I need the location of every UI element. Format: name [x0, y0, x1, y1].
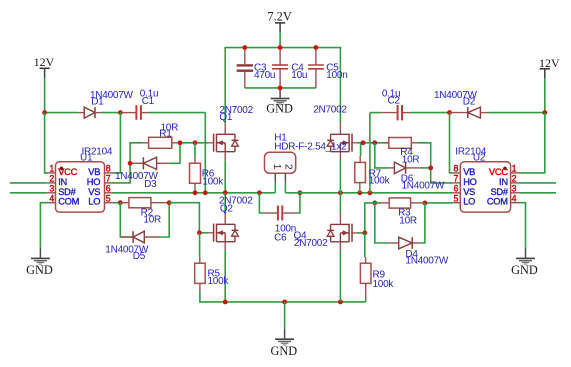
R2 label [141, 208, 161, 226]
junction VS / C6 left [257, 190, 262, 195]
wire bottom ground rail [200, 292, 366, 302]
svg-text:D2: D2 [463, 97, 476, 108]
C4 value label [291, 62, 307, 81]
U2 pin stubs right [511, 173, 520, 203]
junction R2 / D5 / gate wire [167, 200, 172, 205]
wire U1 LO pin5 [113, 202, 121, 204]
D4 label [405, 249, 449, 267]
transistor Q2 2N7002 [208, 213, 239, 251]
U1 pin stubs left [47, 173, 56, 203]
svg-text:100k: 100k [202, 177, 224, 188]
wire C6 left branch [259, 193, 263, 213]
resistor R5 100k [195, 233, 206, 292]
H1 label [274, 132, 347, 152]
junction LO / R2 / D5 [118, 200, 123, 205]
svg-text:10R: 10R [143, 215, 161, 226]
svg-text:1N4007W: 1N4007W [402, 181, 446, 192]
svg-text:2N7002: 2N7002 [294, 238, 328, 249]
svg-text:HO: HO [463, 177, 476, 187]
svg-text:GND: GND [26, 263, 53, 277]
wire switch to Q4 drain [339, 193, 341, 213]
svg-text:7.2V: 7.2V [267, 10, 291, 24]
svg-text:GND: GND [270, 344, 297, 358]
wire C2 right to VB node [411, 112, 450, 114]
U1 pin stubs right [105, 173, 114, 203]
wire to Q2 gate [169, 203, 208, 233]
wire 12V left down to D1 row [44, 78, 46, 114]
svg-text:12V: 12V [539, 56, 560, 70]
junction top rail C5 [313, 45, 318, 50]
power flag 12V right [539, 56, 560, 78]
U1 ref label [80, 146, 113, 163]
capacitor C6 100n [263, 206, 297, 221]
svg-text:470u: 470u [254, 70, 275, 81]
C6 value label [274, 224, 296, 244]
Q2 label [219, 196, 253, 215]
svg-text:Q2: Q2 [220, 203, 234, 214]
svg-text:C6: C6 [274, 232, 287, 243]
wire U1 pin3 SD# input [10, 192, 47, 194]
diode D4 1N4007W [389, 237, 421, 249]
svg-text:5: 5 [106, 193, 111, 203]
transistor Q4 2N7002 [327, 213, 358, 251]
svg-text:1: 1 [512, 164, 517, 174]
ground U2 COM [511, 248, 538, 277]
U1 pin numbers left 1-4 [49, 164, 54, 204]
wire switch node right [285, 192, 452, 194]
svg-text:VB: VB [463, 167, 475, 177]
svg-text:VS: VS [88, 187, 100, 197]
wire VB vertical to U2 pin 8 [450, 113, 453, 173]
wire D2 anode to 12V [489, 112, 545, 114]
capacitor C5 100n [308, 48, 324, 88]
svg-text:C1: C1 [142, 96, 155, 107]
transistor Q3 2N7002 [327, 123, 358, 161]
C2 value label [382, 89, 401, 107]
wire D5 cathode branch [120, 203, 133, 237]
svg-text:IN: IN [58, 177, 67, 187]
wire R9 bottom elbow [365, 299, 367, 302]
junction HO / D3 cathode [128, 161, 133, 166]
svg-text:VB: VB [88, 167, 100, 177]
svg-text:4: 4 [512, 193, 517, 203]
svg-text:7: 7 [106, 174, 111, 184]
U1 pin names right [87, 167, 100, 207]
wire U1 pin4 COM to ground [40, 203, 47, 248]
capacitor C4 10u [272, 48, 288, 88]
svg-text:8: 8 [454, 164, 459, 174]
svg-text:COM: COM [58, 197, 79, 207]
C3 value label [254, 62, 275, 81]
wire H1 pin1 to left VS [274, 183, 276, 193]
svg-text:D1: D1 [91, 97, 104, 108]
junction switch node / C6 right [297, 190, 302, 195]
wire 7.2V top rail [224, 47, 341, 49]
diode D1 1N4007W [78, 107, 101, 118]
junction cap bank gnd [278, 85, 283, 90]
C1 value label [140, 89, 158, 107]
svg-text:12V: 12V [34, 55, 55, 69]
svg-text:VS: VS [463, 187, 475, 197]
junction bottom rail GND [282, 299, 287, 304]
wire Q2 source to bottom rail [224, 251, 226, 302]
R9 label [373, 270, 395, 290]
wire H1 pin2 to right switch node [284, 183, 286, 193]
diode D6 1N4007W [389, 162, 420, 174]
junction VS / R6 [193, 190, 198, 195]
junction VS / Q1 source / Q2 drain [223, 190, 228, 195]
wire 12V right down to D2 row [544, 78, 546, 113]
svg-text:U1: U1 [80, 153, 93, 164]
ground U1 COM [26, 248, 53, 277]
junction VS / C1 [203, 190, 208, 195]
wire R1 to Q1 gate [178, 142, 208, 144]
svg-text:10R: 10R [402, 154, 420, 165]
junction gate / R7 top [361, 140, 366, 145]
D2 label [434, 90, 478, 108]
wire 7.2V rail to Q1 drain [224, 48, 226, 123]
resistor R1 10R [142, 137, 178, 148]
U1 pin names left [58, 177, 79, 207]
U1 pin name VCC [58, 167, 77, 177]
wire Q4 source to bottom rail [339, 251, 341, 302]
diode D2 1N4007W (cathode left) [450, 107, 490, 118]
U2 pin numbers left 8-5 [454, 164, 459, 204]
junction HO column / D6 [428, 165, 433, 170]
op-amp driver U2 IR2104 body [460, 162, 510, 212]
wire R4 right to U2 HO [418, 143, 453, 183]
junction D1 / C1 / VB [118, 110, 123, 115]
svg-text:SD#: SD# [58, 187, 76, 197]
junction bottom rail Q4 source [338, 299, 343, 304]
resistor R7 100k [355, 144, 366, 193]
R1 label [159, 122, 178, 139]
C5 value label [326, 62, 347, 81]
svg-text:1: 1 [49, 164, 54, 174]
svg-text:Q1: Q1 [219, 112, 233, 123]
svg-text:100k: 100k [208, 276, 230, 287]
resistor R4 10R [382, 138, 418, 149]
junction C2 / D2 / U2 VB [447, 110, 452, 115]
wire U1 pin1 VCC from 12V [45, 113, 48, 173]
wire U2 pin3 SD# input [520, 192, 557, 194]
U1 pin numbers right 8-5 [106, 164, 111, 204]
wire D6 anode branch [375, 143, 389, 168]
wire cap bank bottom rail [245, 87, 316, 89]
power flag 7.2V [267, 10, 291, 32]
R3 label [398, 208, 417, 227]
svg-text:4: 4 [49, 193, 54, 203]
svg-text:GND: GND [266, 102, 293, 116]
svg-text:2N7002: 2N7002 [313, 105, 347, 116]
wire 7.2V down to top rail [279, 32, 281, 48]
R6 label [202, 168, 224, 187]
svg-text:6: 6 [106, 184, 111, 194]
svg-text:7: 7 [454, 174, 459, 184]
junction Q4 gate / R9 [362, 230, 367, 235]
wire U1 pin2 IN input [10, 182, 47, 184]
U2 pin numbers right 1-4 [512, 164, 517, 204]
svg-text:8: 8 [106, 164, 111, 174]
junction switch / C2 [367, 190, 372, 195]
wire D3 anode branch [170, 143, 180, 164]
resistor R2 10R [120, 198, 169, 208]
wire D5 anode up to gate wire [160, 203, 169, 237]
diode D5 1N4007W [120, 231, 160, 243]
resistor R9 100k [360, 233, 371, 299]
ground cap bank [266, 88, 293, 116]
svg-text:C2: C2 [388, 95, 401, 106]
junction 12V / D1 / U1 pin1 [42, 110, 47, 115]
svg-text:10u: 10u [291, 70, 307, 81]
Q1 label [219, 105, 253, 123]
U2 ref label [455, 146, 486, 163]
svg-text:HO: HO [87, 177, 100, 187]
junction gate / D6 anode [372, 140, 377, 145]
svg-text:10R: 10R [399, 216, 417, 227]
capacitor C3 470u electrolytic [237, 48, 253, 88]
transistor Q1 2N7002 [208, 123, 239, 161]
D6 label [401, 174, 445, 192]
wire U2 pin1 VCC from 12V [519, 113, 545, 173]
junction switch / R7 [357, 190, 362, 195]
wire U2 pin2 IN input [520, 182, 557, 184]
svg-text:LO: LO [88, 197, 100, 207]
svg-text:D3: D3 [144, 179, 157, 190]
resistor R6 100k [190, 143, 201, 193]
op-amp driver U1 IR2104 body [56, 162, 105, 212]
wire 12V to D1 anode [45, 112, 79, 114]
Q4 label [294, 230, 329, 249]
capacitor C1 0.1u bootstrap [120, 105, 149, 120]
svg-text:LO: LO [463, 197, 475, 207]
wire VS switch node left [113, 192, 275, 194]
U2 pin stubs left [451, 173, 460, 203]
svg-text:100n: 100n [326, 70, 347, 81]
svg-text:2: 2 [282, 164, 293, 170]
svg-text:3: 3 [49, 184, 54, 194]
svg-text:D5: D5 [133, 251, 146, 262]
svg-text:2: 2 [49, 174, 54, 184]
capacitor C2 0.1u bootstrap [381, 105, 411, 120]
diode D3 1N4007W (cathode to HO) [130, 157, 170, 169]
D1 label [90, 90, 134, 108]
svg-text:100k: 100k [369, 176, 391, 187]
wire D4 anode branch [375, 203, 389, 243]
D3 label [115, 171, 159, 190]
wire D1 cathode to VB node [101, 112, 120, 114]
wire Q3 source to switch node [339, 161, 341, 193]
wire U1 HO pin7 up to R1 [113, 143, 142, 183]
junction bottom rail Q2 source [223, 299, 228, 304]
svg-text:COM: COM [487, 197, 508, 207]
wire Q3 gate to R4 [357, 142, 389, 144]
junction Q2 gate / R5 [197, 230, 202, 235]
R5 label [208, 268, 230, 287]
R7 label [369, 169, 391, 187]
svg-text:R1: R1 [159, 128, 172, 139]
Q3 label [313, 105, 347, 116]
junction R3 left / D4 / gate [372, 200, 377, 205]
wire 7.2V rail to Q3 drain [339, 48, 341, 123]
junction gate / R6 [193, 140, 198, 145]
junction switch / Q3 source / Q4 drain [338, 190, 343, 195]
D5 label [105, 245, 149, 263]
junction top rail C3 [242, 45, 247, 50]
wire U2 pin4 COM to ground [519, 203, 526, 248]
wire VB vertical to U1 pin 8 [113, 113, 121, 173]
svg-text:5: 5 [454, 193, 459, 203]
power flag 12V left [34, 55, 55, 77]
svg-text:HDR-F-2.54_1x2: HDR-F-2.54_1x2 [274, 141, 347, 152]
svg-text:2: 2 [512, 174, 517, 184]
junction R3 right / D4 [422, 200, 427, 205]
U2 pin names right [487, 177, 509, 207]
svg-text:SD#: SD# [490, 187, 508, 197]
svg-text:GND: GND [511, 263, 538, 277]
wire C6 right branch [297, 193, 300, 213]
connector H1 HDR-F-2.54_1x2 [265, 152, 296, 183]
wire D4 cathode up to LO wire [421, 203, 425, 243]
junction gate / D3 [178, 140, 183, 145]
svg-text:100k: 100k [373, 279, 395, 290]
wire VS to Q2 drain [224, 193, 226, 213]
ground bottom center [270, 329, 297, 358]
svg-text:IN: IN [499, 177, 508, 187]
svg-text:3: 3 [512, 184, 517, 194]
wire C1 right to VS column [149, 113, 205, 193]
wire bottom rail to ground [284, 302, 286, 329]
svg-text:U2: U2 [473, 153, 486, 164]
svg-text:1N4007W: 1N4007W [405, 256, 449, 267]
resistor R3 10R [381, 198, 425, 208]
U2 pin names left [463, 167, 476, 207]
wire C2 left to switch column [370, 113, 381, 193]
wire D6 cathode to HO column [420, 167, 431, 169]
svg-text:1: 1 [271, 164, 282, 170]
wire U2 LO pin5 to R3 [425, 202, 452, 204]
junction top rail 7.2V [278, 45, 283, 50]
svg-text:VCC: VCC [489, 167, 508, 177]
svg-text:VCC: VCC [58, 167, 77, 177]
junction 12V right / D2 / U2 pin1 [542, 110, 547, 115]
R4 label [400, 147, 419, 165]
svg-text:6: 6 [454, 184, 459, 194]
U2 pin name VCC [489, 167, 508, 177]
wire R3 left to Q4 gate [357, 203, 381, 233]
wire Q1 source to VS [224, 161, 226, 193]
